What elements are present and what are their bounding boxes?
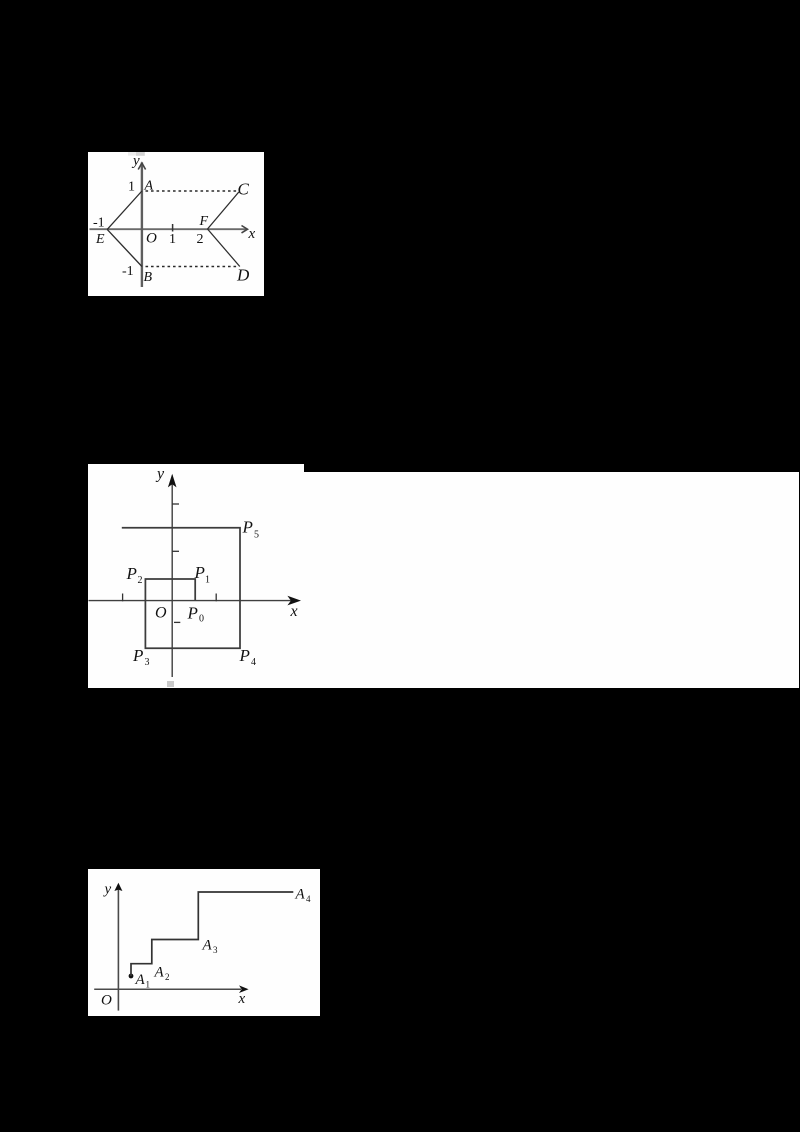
svg-text:x: x	[238, 991, 246, 1007]
white backing: main area	[88, 472, 799, 688]
svg-text:y: y	[155, 466, 165, 483]
svg-text:3: 3	[145, 657, 150, 668]
svg-text:A: A	[135, 972, 146, 988]
x-axis tick right	[215, 594, 217, 602]
svg-text:P: P	[194, 563, 205, 582]
white backing: top-left strip	[88, 464, 304, 688]
y-axis tick +1	[172, 550, 179, 552]
x-axis	[94, 988, 241, 990]
staircase polyline A1->A2->A3->A4	[131, 892, 293, 976]
svg-text:1: 1	[169, 232, 176, 247]
y-axis tick below origin	[174, 621, 180, 623]
segment E to A	[107, 191, 142, 229]
point A1 dot	[129, 974, 134, 979]
svg-text:E: E	[95, 232, 105, 247]
x-axis arrowhead	[242, 226, 248, 233]
segment F to C	[208, 192, 239, 229]
x-axis tick left	[122, 594, 124, 602]
svg-text:4: 4	[251, 657, 256, 668]
x-axis	[90, 228, 247, 230]
grey smudge at bottom of y-axis	[167, 681, 174, 687]
y-axis	[117, 885, 119, 1011]
svg-text:C: C	[238, 180, 250, 199]
svg-text:P: P	[132, 646, 143, 665]
svg-text:P: P	[239, 646, 250, 665]
x-axis arrowhead	[287, 596, 301, 606]
svg-text:y: y	[131, 153, 140, 169]
svg-text:A: A	[202, 938, 213, 954]
svg-text:x: x	[290, 603, 298, 620]
svg-text:A: A	[144, 179, 154, 194]
svg-text:P: P	[126, 564, 137, 583]
svg-text:x: x	[248, 226, 256, 242]
svg-text:0: 0	[199, 614, 204, 625]
svg-text:5: 5	[254, 530, 259, 541]
tick x=1	[172, 224, 174, 232]
segment F to D	[208, 229, 240, 267]
svg-text:P: P	[187, 604, 198, 623]
y-axis	[171, 476, 173, 678]
svg-text:F: F	[199, 214, 209, 229]
svg-text:A: A	[154, 965, 165, 981]
svg-text:A: A	[295, 887, 306, 903]
spiral polyline P0->P1->P2->P3->P4->P5->end	[122, 528, 240, 648]
x-axis	[89, 600, 294, 602]
svg-text:2: 2	[138, 575, 143, 586]
svg-text:P: P	[242, 518, 253, 537]
svg-text:-1: -1	[93, 216, 105, 231]
svg-text:4: 4	[306, 894, 311, 904]
y-axis	[141, 163, 143, 288]
y-axis tick +2	[172, 503, 179, 505]
svg-text:2: 2	[197, 232, 204, 247]
svg-text:3: 3	[213, 945, 218, 955]
dashed segment B to D	[146, 266, 239, 268]
y-axis arrowhead	[168, 474, 177, 488]
svg-text:D: D	[236, 266, 250, 285]
segment E to B	[107, 229, 142, 266]
svg-text:1: 1	[146, 980, 151, 990]
svg-text:2: 2	[165, 972, 170, 982]
x-axis arrowhead	[239, 985, 249, 993]
svg-text:1: 1	[205, 575, 210, 586]
svg-text:O: O	[146, 231, 157, 247]
svg-text:O: O	[101, 993, 112, 1009]
dashed segment A to C	[146, 190, 239, 192]
svg-text:O: O	[155, 605, 167, 622]
svg-text:B: B	[144, 270, 153, 285]
svg-text:y: y	[103, 882, 112, 898]
y-axis arrowhead	[114, 883, 122, 891]
grey notch at top edge	[128, 152, 137, 156]
y-axis arrowhead	[138, 163, 145, 170]
svg-text:-1: -1	[122, 264, 134, 279]
svg-text:1: 1	[128, 180, 135, 195]
